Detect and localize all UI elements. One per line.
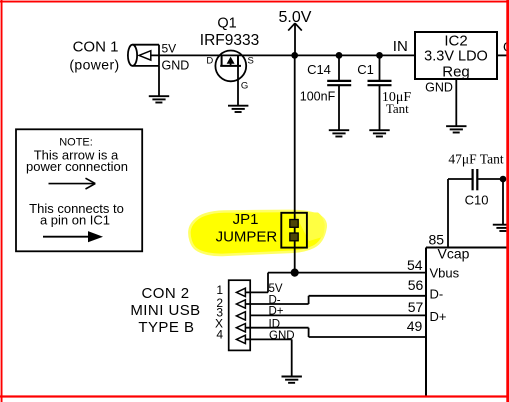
wire pin 56 D- <box>309 277 426 296</box>
red crop line right <box>506 0 509 402</box>
svg-text:C14: C14 <box>307 62 331 77</box>
wire pin 57 D+ <box>250 299 426 315</box>
wire GND usb <box>245 330 294 376</box>
svg-text:Q1: Q1 <box>217 15 236 31</box>
svg-text:GND: GND <box>162 58 190 72</box>
wire ID usb <box>245 318 308 337</box>
capacitor C14 <box>300 52 351 130</box>
transistor Q1 <box>206 51 254 92</box>
connector CON1 label <box>69 38 119 72</box>
svg-text:57: 57 <box>408 299 424 315</box>
red crop line top <box>0 1 509 3</box>
wire 5V bus <box>151 54 415 56</box>
svg-text:47μF Tant: 47μF Tant <box>448 152 503 167</box>
svg-text:Tant: Tant <box>386 101 409 116</box>
svg-text:(power): (power) <box>69 57 119 73</box>
connector CON1 symbol <box>128 42 189 73</box>
svg-text:C1: C1 <box>357 62 374 77</box>
svg-text:5V: 5V <box>162 42 177 56</box>
ground Q1 gate <box>228 106 248 112</box>
ground C1 <box>369 130 389 136</box>
svg-text:Vbus: Vbus <box>430 265 460 280</box>
ground CON2 <box>282 377 302 383</box>
svg-text:G: G <box>241 81 248 92</box>
wire 5V usb <box>245 273 282 295</box>
svg-text:a pin on IC1: a pin on IC1 <box>40 213 110 228</box>
note arrow filled <box>43 231 103 242</box>
wire D- usb <box>245 295 308 307</box>
svg-text:49: 49 <box>407 318 423 334</box>
IC2 regulator <box>415 32 497 95</box>
pin X arrow <box>236 324 245 332</box>
note arrow thin <box>49 178 96 189</box>
ground CON1 <box>149 66 169 103</box>
svg-text:54: 54 <box>407 257 423 273</box>
capacitor C1 <box>357 52 411 130</box>
pin 2 arrow <box>236 300 245 308</box>
ground C14 <box>329 130 349 136</box>
note box <box>16 129 142 251</box>
svg-text:D: D <box>206 56 213 67</box>
wire D+ usb <box>269 306 284 318</box>
connector CON2 label <box>130 285 200 336</box>
node 5V junction <box>291 52 298 59</box>
node IN label <box>393 38 408 55</box>
wire C10 gnd <box>502 179 504 225</box>
svg-text:IN: IN <box>393 38 408 55</box>
svg-text:Reg: Reg <box>442 63 470 80</box>
wire IC2 gnd <box>455 79 457 126</box>
svg-text:D+: D+ <box>269 306 284 318</box>
connector CON2 body <box>215 280 250 350</box>
wire pin 54 Vbus <box>268 257 426 273</box>
svg-text:S: S <box>248 56 254 67</box>
svg-text:GND: GND <box>269 330 295 342</box>
wire OUT <box>497 39 509 55</box>
wire Q1 gate <box>237 66 239 106</box>
svg-text:power connection: power connection <box>26 159 128 174</box>
pin 4 arrow <box>236 335 245 343</box>
svg-text:4: 4 <box>216 328 223 342</box>
ground C10 <box>493 225 509 231</box>
svg-text:C10: C10 <box>465 193 489 208</box>
red crop line left <box>1 0 3 402</box>
wire pin 85 <box>429 179 448 248</box>
transistor Q1 labels <box>200 15 259 49</box>
IC1 box <box>426 246 509 397</box>
red crop line bottom <box>0 395 509 397</box>
pin 3 arrow <box>236 312 245 320</box>
power arrow in CON1 <box>139 51 151 60</box>
wire jumper vertical <box>294 55 296 272</box>
ground IC2 <box>446 126 466 132</box>
svg-text:Vcap: Vcap <box>438 246 470 262</box>
svg-text:MINI USB: MINI USB <box>130 302 200 319</box>
svg-text:56: 56 <box>408 277 424 293</box>
svg-text:JUMPER: JUMPER <box>216 228 278 245</box>
node C10 out <box>500 176 507 183</box>
jumper JP1 <box>216 211 307 248</box>
highlight over JP1 <box>189 211 325 255</box>
svg-text:IRF9333: IRF9333 <box>200 32 259 49</box>
svg-text:CON 2: CON 2 <box>141 285 189 302</box>
svg-text:3.3V LDO: 3.3V LDO <box>424 49 488 65</box>
svg-text:ID: ID <box>269 318 281 330</box>
capacitor C10 <box>448 152 504 208</box>
power 5.0V <box>279 9 312 55</box>
svg-text:D+: D+ <box>430 309 447 324</box>
svg-text:D-: D- <box>430 286 444 301</box>
svg-text:1: 1 <box>216 283 223 297</box>
pin 1 arrow <box>236 288 245 296</box>
wire pin 49 <box>309 318 426 337</box>
svg-text:100nF: 100nF <box>300 90 336 104</box>
node jumper out <box>291 269 299 277</box>
svg-text:CON 1: CON 1 <box>73 38 119 55</box>
svg-text:GND: GND <box>425 81 453 95</box>
svg-text:JP1: JP1 <box>233 211 259 228</box>
svg-text:IC2: IC2 <box>444 32 467 49</box>
svg-text:TYPE B: TYPE B <box>138 319 194 336</box>
svg-text:5V: 5V <box>269 283 283 295</box>
